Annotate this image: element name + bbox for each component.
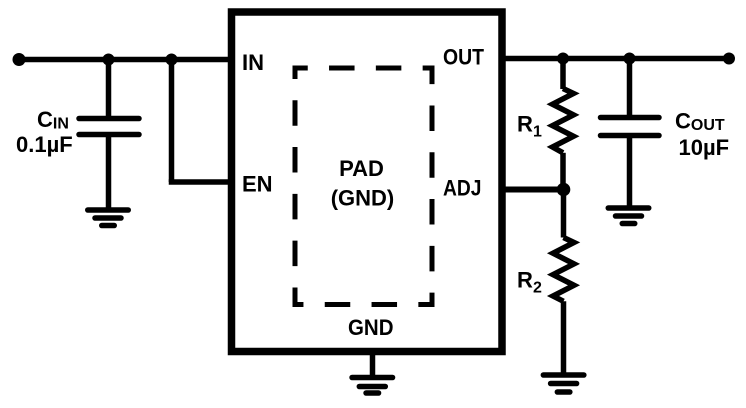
svg-text:0.1µF: 0.1µF: [16, 132, 73, 157]
node: EN junction: [166, 54, 178, 66]
output terminal dot: [723, 53, 735, 65]
wire: COUT node to top plate: [627, 59, 633, 118]
wire: ADJ pin: [502, 187, 564, 193]
wire: OUT node to R1 top: [560, 59, 566, 90]
svg-text:(GND): (GND): [331, 186, 395, 211]
regulator body U1: [232, 12, 503, 352]
svg-text:GND: GND: [348, 315, 394, 340]
wire: CIN bottom plate to ground: [106, 135, 112, 211]
svg-text:ADJ: ADJ: [443, 176, 482, 201]
ground below R2: [543, 375, 584, 392]
wire: GND pin stub: [370, 352, 376, 378]
svg-text:2: 2: [533, 280, 542, 297]
node: R1 junction: [557, 53, 569, 65]
wire: node to CIN top plate: [106, 60, 112, 119]
svg-text:OUT: OUT: [443, 45, 484, 70]
svg-text:COUT: COUT: [675, 109, 725, 135]
wire: COUT bottom plate to ground: [627, 136, 633, 209]
resistor R2: [553, 238, 574, 302]
svg-text:PAD: PAD: [339, 156, 384, 181]
input terminal dot: [13, 53, 26, 66]
wire: EN node down: [169, 60, 175, 183]
node: CIN junction: [103, 54, 115, 66]
wire: input rail to IN pin: [19, 57, 232, 63]
wire: to EN pin: [169, 179, 232, 185]
wire: ADJ node to R2 top: [561, 190, 567, 238]
svg-text:10µF: 10µF: [679, 135, 730, 160]
svg-text:EN: EN: [242, 172, 273, 197]
svg-text:CIN: CIN: [37, 107, 69, 133]
ground below C_OUT: [608, 208, 649, 224]
svg-text:R: R: [517, 268, 533, 293]
wire: OUT pin to output rail: [502, 56, 729, 62]
capacitor C_IN: [79, 119, 139, 135]
resistor R1: [553, 89, 574, 153]
wire: R1 bottom to ADJ node: [560, 153, 566, 190]
node: ADJ junction: [557, 183, 571, 197]
node: COUT junction: [624, 53, 636, 65]
svg-text:IN: IN: [242, 50, 264, 75]
ground below GND pin: [352, 378, 393, 394]
svg-text:1: 1: [533, 124, 542, 141]
wire: R2 bottom to ground: [561, 301, 567, 375]
svg-text:R: R: [517, 112, 533, 137]
ground below C_IN: [88, 210, 129, 226]
thermal pad PAD (dashed): [295, 68, 432, 305]
capacitor C_OUT: [601, 118, 660, 136]
